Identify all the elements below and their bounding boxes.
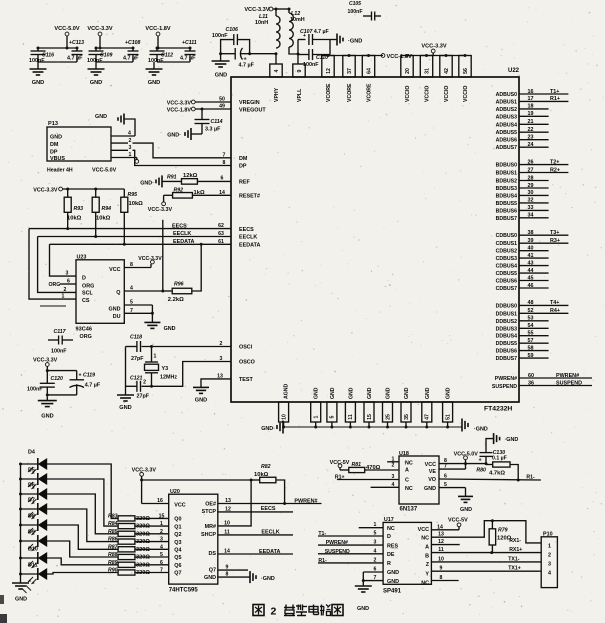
wire U17 pin11 B to P10 pin2 net RX1+	[431, 547, 541, 554]
svg-text:15: 15	[367, 414, 373, 420]
svg-text:VCORE: VCORE	[347, 83, 353, 102]
svg-text:42: 42	[444, 68, 450, 74]
svg-text:EECS: EECS	[239, 227, 254, 233]
resistor R94 10k	[92, 189, 111, 238]
capacitor C117 100nF	[48, 329, 73, 355]
svg-text:19: 19	[528, 111, 534, 117]
svg-text:20: 20	[405, 68, 411, 74]
wire U17 pin5 D net T1-	[318, 531, 383, 538]
resistor R83 320ohm	[108, 513, 169, 522]
svg-text:60: 60	[528, 373, 534, 379]
svg-text:SCL: SCL	[82, 291, 93, 297]
wire U20 pin14 DS EEDATA net	[218, 549, 293, 555]
wire DM net	[133, 143, 232, 158]
wire U23 pin8 VCC	[124, 256, 162, 268]
svg-text:GND: GND	[446, 387, 452, 399]
svg-text:GND: GND	[215, 73, 227, 79]
svg-text:11: 11	[348, 414, 354, 420]
svg-text:6N137: 6N137	[400, 507, 418, 513]
svg-text:5: 5	[130, 300, 133, 306]
svg-text:R1-: R1-	[526, 474, 535, 480]
svg-text:4: 4	[548, 571, 551, 577]
capacitor C106 100nF	[212, 27, 250, 54]
svg-text:NC: NC	[421, 580, 429, 586]
svg-text:12: 12	[326, 68, 332, 74]
svg-text:R93: R93	[74, 206, 84, 212]
svg-text:27pF: 27pF	[131, 356, 144, 362]
svg-text:5: 5	[330, 415, 336, 418]
svg-text:R81: R81	[352, 462, 362, 468]
svg-text:3: 3	[392, 474, 395, 480]
svg-text:16: 16	[528, 89, 534, 95]
svg-text:GND: GND	[460, 507, 472, 513]
svg-text:C110: C110	[316, 55, 328, 61]
svg-text:R1+: R1+	[335, 475, 345, 481]
svg-text:C: C	[405, 478, 409, 484]
svg-text:100nF: 100nF	[87, 58, 103, 64]
ground at P13 pin4	[95, 114, 124, 125]
svg-text:2: 2	[64, 287, 67, 293]
svg-text:12: 12	[225, 506, 231, 512]
svg-text:1: 1	[548, 544, 551, 550]
VCC-5.0V label at P13	[92, 168, 117, 174]
VCCIO rail to VCC-3.3V terminal	[406, 44, 467, 58]
wire U23 pin2 SCL to EECLK rail	[38, 237, 76, 293]
FT4232H U22 chip body	[231, 68, 520, 402]
svg-text:GND: GND	[330, 387, 336, 399]
svg-text:R86: R86	[108, 537, 118, 543]
svg-text:3: 3	[66, 271, 69, 277]
svg-text:C107 4.7 µF: C107 4.7 µF	[300, 29, 329, 35]
svg-text:VCC: VCC	[418, 527, 429, 533]
svg-text:0.1 µF: 0.1 µF	[492, 456, 507, 462]
svg-text:VCC-5.0V: VCC-5.0V	[454, 451, 479, 457]
svg-text:3: 3	[160, 537, 163, 543]
svg-text:OSCO: OSCO	[239, 360, 255, 366]
capacitor C121 27pF	[126, 376, 150, 400]
FT4232H part label	[484, 406, 512, 413]
svg-text:320Ω: 320Ω	[136, 531, 150, 537]
svg-text:VCCIO: VCCIO	[463, 86, 469, 102]
svg-text:OSCI: OSCI	[239, 345, 253, 351]
svg-text:3: 3	[374, 540, 377, 546]
svg-text:1: 1	[129, 152, 132, 158]
wire D6 to resistor R85	[47, 494, 118, 534]
wire D8 to resistor R87	[47, 525, 118, 549]
svg-text:24: 24	[528, 142, 534, 148]
wire VCC to R82	[142, 479, 253, 482]
resistor R91 12k	[162, 173, 231, 184]
svg-text:17: 17	[528, 96, 534, 102]
svg-text:GND: GND	[314, 387, 320, 399]
svg-text:26: 26	[528, 159, 534, 165]
svg-text:GND: GND	[164, 326, 176, 332]
svg-text:R89: R89	[108, 560, 118, 566]
wire D7 to resistor R86	[47, 509, 118, 542]
U17 pin8 NC stub	[431, 575, 458, 581]
VCC-5V terminal at R81	[330, 460, 350, 470]
svg-text:VCC: VCC	[174, 503, 185, 509]
svg-text:34: 34	[528, 213, 534, 219]
svg-text:+C111: +C111	[182, 40, 197, 46]
svg-text:+C113: +C113	[69, 40, 84, 46]
wire EECS net	[29, 223, 231, 229]
svg-text:320Ω: 320Ω	[136, 539, 150, 545]
U18 pin4 NC stub	[371, 482, 399, 488]
wire D9 to resistor R88	[47, 541, 118, 557]
wire U23 pin5 pin7 GND	[124, 300, 154, 323]
LED cathode rail	[19, 463, 22, 577]
svg-text:VCC: VCC	[425, 462, 436, 468]
svg-text:32: 32	[528, 198, 534, 204]
svg-text:A: A	[425, 544, 429, 550]
wire D5 to resistor R84	[47, 479, 118, 526]
svg-text:470Ω: 470Ω	[366, 465, 381, 471]
svg-text:GND: GND	[204, 575, 216, 581]
svg-text:RE̲S̲: RE̲S̲	[387, 543, 398, 549]
svg-text:R96: R96	[174, 282, 184, 288]
wire U17 pin2 R net R1-	[318, 557, 383, 564]
wire PWREN# pin 60	[519, 373, 592, 379]
svg-text:BDBUS4: BDBUS4	[496, 193, 517, 199]
svg-text:VCC-3.3V: VCC-3.3V	[87, 26, 112, 32]
svg-text:CDBUS1: CDBUS1	[496, 241, 517, 247]
svg-text:GND: GND	[387, 579, 399, 585]
U22 internal bottom labels AGND GND	[284, 383, 452, 399]
wire from VCC node down to R96 node	[162, 220, 164, 291]
svg-text:28: 28	[528, 175, 534, 181]
svg-text:VCCIO: VCCIO	[425, 86, 431, 102]
VREGOUT pin 49 wire to VCC-1.8V	[167, 104, 231, 114]
svg-text:EEDATA: EEDATA	[239, 243, 260, 249]
svg-text:6: 6	[67, 279, 70, 285]
svg-text:35: 35	[404, 414, 410, 420]
resistor R95 10k	[121, 189, 143, 246]
svg-text:D4: D4	[28, 450, 35, 456]
wire group DDBUS pins 48-59 with labels T4+ R4+	[519, 300, 568, 359]
svg-text:R80: R80	[476, 467, 486, 473]
U17 pin1 NC stub	[359, 522, 383, 528]
svg-text:VO: VO	[428, 477, 436, 483]
wire U18 pin3 C net R1+	[335, 474, 399, 481]
svg-text:2: 2	[271, 606, 277, 618]
svg-text:C117: C117	[54, 329, 67, 335]
svg-text:D10: D10	[28, 547, 38, 553]
svg-text:NC: NC	[421, 535, 429, 541]
resistor R90 320ohm	[108, 568, 169, 577]
svg-text:GND: GND	[109, 307, 121, 313]
U18 pin1 NC stub	[387, 456, 399, 462]
wire TEST pin13 to ground	[193, 374, 231, 404]
svg-text:41: 41	[528, 253, 534, 259]
svg-text:7: 7	[444, 464, 447, 470]
LED D5	[21, 468, 48, 490]
svg-text:VE: VE	[429, 469, 437, 475]
svg-text:10: 10	[438, 556, 444, 562]
svg-text:NC: NC	[405, 486, 413, 492]
svg-text:Y: Y	[425, 571, 429, 577]
wire U20 pin12 STCP EECS net	[218, 506, 293, 512]
svg-text:EECLK: EECLK	[239, 235, 257, 241]
svg-text:EECS: EECS	[261, 506, 276, 512]
wire U20 pin10 MR# to VCC	[218, 480, 251, 526]
svg-text:U22: U22	[508, 68, 520, 74]
svg-text:P13: P13	[48, 121, 58, 127]
svg-text:BDBUS7: BDBUS7	[496, 216, 517, 222]
svg-text:2: 2	[374, 557, 377, 563]
svg-text:SUSPEND: SUSPEND	[492, 384, 517, 390]
svg-text:CDBUS4: CDBUS4	[496, 264, 517, 270]
svg-text:6: 6	[444, 474, 447, 480]
scan mark left edge	[0, 595, 4, 604]
svg-text:·GND: ·GND	[474, 427, 488, 433]
svg-text:GND: GND	[32, 80, 44, 86]
svg-text:4.7 µF: 4.7 µF	[239, 63, 255, 69]
wire U23 pin1 CS to EECS rail	[29, 229, 76, 300]
svg-text:GND: GND	[50, 135, 62, 141]
scan mark corner	[0, 614, 7, 623]
svg-text:4.7kΩ: 4.7kΩ	[489, 471, 505, 477]
svg-text:Q6: Q6	[174, 563, 181, 569]
svg-text:4: 4	[274, 69, 280, 72]
svg-text:R82: R82	[261, 464, 271, 470]
svg-text:4: 4	[392, 482, 395, 488]
svg-text:40: 40	[528, 246, 534, 252]
svg-text:4: 4	[128, 131, 131, 137]
svg-text:1: 1	[392, 456, 395, 462]
svg-text:OE#: OE#	[205, 502, 216, 508]
wire U20 pin8 GND	[218, 572, 250, 578]
svg-text:DM: DM	[239, 156, 248, 162]
wire U17 pin13 to P10 pin1 net RX1-	[431, 519, 541, 544]
svg-text:D: D	[387, 534, 391, 540]
svg-text:18: 18	[528, 104, 534, 110]
svg-text:ORG: ORG	[80, 334, 92, 340]
wire U17 pin4 DE net SUSPEND	[318, 548, 383, 555]
svg-text:ADBUS5: ADBUS5	[496, 130, 517, 136]
wire U17 pin10 Z to P10 pin3 net TX1-	[431, 556, 541, 562]
P13 pin 4 GND wire	[111, 119, 135, 137]
svg-text:13: 13	[217, 374, 223, 380]
EEPROM U23 93C46	[76, 255, 124, 324]
svg-text:DU: DU	[113, 314, 121, 320]
wire U23 pin3 D to EEDATA rail	[50, 244, 77, 276]
svg-text:R2+: R2+	[550, 167, 560, 173]
svg-text:100nF: 100nF	[303, 62, 319, 68]
svg-text:320Ω: 320Ω	[136, 547, 150, 553]
svg-text:VCC-5.0V: VCC-5.0V	[92, 168, 117, 174]
wire U23 pin4 Q	[124, 286, 164, 293]
wire U20 pin13 OE# PWREN# net	[218, 498, 322, 505]
svg-text:5: 5	[160, 552, 163, 558]
wire U17 pin3 RE net PWREN#	[318, 540, 383, 547]
svg-text:GND: GND	[424, 486, 436, 492]
VCC-5.0V terminal at U18 pin8	[454, 451, 479, 463]
svg-text:BDBUS3: BDBUS3	[496, 186, 517, 192]
svg-text:21: 21	[528, 119, 534, 125]
svg-text:CDBUS5: CDBUS5	[496, 271, 517, 277]
resistor R81 470ohm	[340, 462, 399, 473]
svg-text:GND: GND	[15, 597, 27, 603]
ground at U18 pin5	[458, 496, 473, 513]
capacitor C114 3.3uF	[195, 109, 223, 134]
wire R96 to EEDATA	[192, 244, 201, 291]
svg-text:4.7 µF: 4.7 µF	[180, 56, 196, 62]
svg-text:64: 64	[366, 68, 372, 74]
svg-text:6: 6	[160, 560, 163, 566]
svg-text:CDBUS0: CDBUS0	[496, 233, 517, 239]
svg-text:R91: R91	[167, 175, 177, 181]
svg-text:T1-: T1-	[318, 531, 326, 537]
svg-text:GND: GND	[119, 405, 131, 411]
svg-text:DS: DS	[209, 551, 217, 557]
svg-text:1: 1	[62, 294, 65, 300]
bottom GND bus	[282, 426, 462, 429]
svg-text:8: 8	[223, 160, 226, 166]
svg-text:Q0: Q0	[174, 517, 181, 523]
svg-text:11: 11	[224, 529, 230, 535]
svg-text:63: 63	[218, 231, 224, 237]
svg-text:CDBUS7: CDBUS7	[496, 286, 517, 292]
power rail VCC-5.0V with capacitor C116 100nF and capacitor C113 4.7uF	[29, 26, 84, 86]
svg-text:CDBUS6: CDBUS6	[496, 279, 517, 285]
P13 pin 1 VBUS wire	[111, 152, 139, 163]
svg-text:R94: R94	[102, 206, 112, 212]
connector P10	[541, 532, 557, 588]
svg-text:DDBUS0: DDBUS0	[496, 303, 517, 309]
svg-text:2: 2	[392, 463, 395, 469]
LED D10	[21, 547, 48, 569]
svg-text:4: 4	[130, 286, 133, 292]
wire EECLK net	[38, 231, 231, 237]
svg-text:R85: R85	[108, 529, 118, 535]
svg-text:R79: R79	[498, 528, 508, 534]
LED D4	[21, 450, 48, 475]
resistor R82 10k	[251, 464, 276, 483]
ground left of bottom bus	[261, 421, 283, 434]
wire R82 to PWREN#	[276, 480, 286, 505]
svg-text:100nF: 100nF	[212, 33, 228, 39]
svg-text:R90: R90	[108, 568, 118, 574]
capacitor C119 4.7uF polarized	[46, 371, 101, 397]
svg-text:GND: GND	[404, 387, 410, 399]
svg-text:VCCIO: VCCIO	[405, 86, 411, 102]
svg-text:11: 11	[438, 547, 444, 553]
svg-text:VCC-5V: VCC-5V	[330, 460, 350, 466]
svg-text:43: 43	[528, 260, 534, 266]
LED D11	[21, 563, 48, 585]
LED D6	[21, 483, 48, 505]
svg-text:47: 47	[425, 414, 431, 420]
svg-text:10nH: 10nH	[255, 20, 268, 26]
svg-text:6: 6	[374, 567, 377, 573]
svg-text:4: 4	[160, 544, 163, 550]
resistor R84 320ohm	[108, 521, 169, 530]
svg-text:100nF: 100nF	[148, 58, 164, 64]
svg-text:DDBUS1: DDBUS1	[496, 311, 517, 317]
svg-text:CS: CS	[82, 298, 90, 304]
svg-text:D9: D9	[28, 530, 35, 536]
svg-text:R95: R95	[128, 192, 138, 198]
resistor R79 120ohm	[489, 521, 512, 553]
ground for C106 C113	[212, 54, 230, 79]
svg-text:BDBUS5: BDBUS5	[496, 201, 517, 207]
svg-text:VPLL: VPLL	[297, 88, 303, 102]
svg-text:49: 49	[219, 104, 225, 110]
svg-text:93C46: 93C46	[76, 327, 92, 333]
svg-text:+: +	[479, 458, 482, 464]
capacitor C107 4.7uF polarized	[298, 29, 330, 54]
svg-text:B: B	[425, 554, 429, 560]
U22 internal left labels	[239, 100, 266, 383]
svg-text:1: 1	[154, 354, 157, 360]
svg-text:GND·: GND·	[167, 133, 181, 139]
svg-text:C121: C121	[130, 376, 143, 382]
resistor R89 320ohm	[108, 560, 169, 569]
svg-text:VREGOUT: VREGOUT	[239, 108, 266, 114]
svg-text:VCC-3.3V: VCC-3.3V	[244, 7, 269, 13]
svg-text:58: 58	[528, 345, 534, 351]
svg-text:100nF: 100nF	[51, 349, 67, 355]
VCORE rail to VCC-1.8V terminal	[327, 54, 412, 61]
svg-text:T3+: T3+	[550, 230, 559, 236]
svg-text:C105: C105	[349, 1, 361, 7]
resistor R92 1k	[164, 188, 231, 199]
svg-text:VCC-5.0V: VCC-5.0V	[54, 26, 79, 32]
wire group CDBUS pins 38-46 with labels T3+ R3+	[519, 230, 568, 289]
svg-text:EECLK: EECLK	[173, 231, 191, 237]
svg-text:59: 59	[528, 353, 534, 359]
svg-text:3: 3	[220, 356, 223, 362]
resistor R86 320ohm	[108, 537, 169, 546]
wire U18 pin7 VE	[439, 464, 466, 470]
svg-text:10kΩ: 10kΩ	[96, 216, 111, 222]
resistor R96 2.2k	[163, 282, 192, 304]
U22 bottom pin boxes 10 1 5 11 15 25 35 47 51	[279, 402, 453, 427]
U22 top pin boxes 4 9 12 37 64 20 31 42 56	[270, 56, 471, 78]
svg-text:D11: D11	[28, 563, 38, 569]
ground for C114	[167, 128, 202, 140]
VCC-3.3V terminal at C120	[33, 358, 58, 373]
svg-text:3: 3	[129, 145, 132, 151]
svg-text:VCC: VCC	[109, 267, 120, 273]
svg-text:TEST: TEST	[239, 377, 253, 383]
svg-text:GND: GND	[425, 387, 431, 399]
svg-text:3.3 µF: 3.3 µF	[205, 127, 221, 133]
svg-text:NC: NC	[387, 526, 395, 532]
svg-text:D6: D6	[28, 483, 35, 489]
wire DP net	[133, 150, 232, 166]
svg-text:3: 3	[548, 562, 551, 568]
svg-text:320Ω: 320Ω	[136, 562, 150, 568]
svg-text:C118: C118	[130, 335, 142, 341]
svg-text:PWREN#: PWREN#	[556, 373, 579, 379]
svg-text:27pF: 27pF	[137, 394, 150, 400]
svg-text:T4+: T4+	[550, 300, 559, 306]
svg-text:AGND: AGND	[284, 383, 290, 399]
P13 label Header 4H	[47, 168, 73, 174]
capacitor C105 100nF decorative	[348, 1, 382, 21]
svg-text:GND: GND	[357, 606, 369, 612]
svg-text:8: 8	[130, 262, 133, 268]
svg-text:1: 1	[160, 521, 163, 527]
svg-text:320Ω: 320Ω	[136, 555, 150, 561]
U18 part label	[400, 507, 418, 513]
svg-text:C114: C114	[211, 119, 223, 125]
svg-text:36: 36	[528, 380, 534, 386]
svg-text:VCC-3.3V: VCC-3.3V	[138, 256, 162, 262]
svg-text:Q7: Q7	[174, 571, 181, 577]
